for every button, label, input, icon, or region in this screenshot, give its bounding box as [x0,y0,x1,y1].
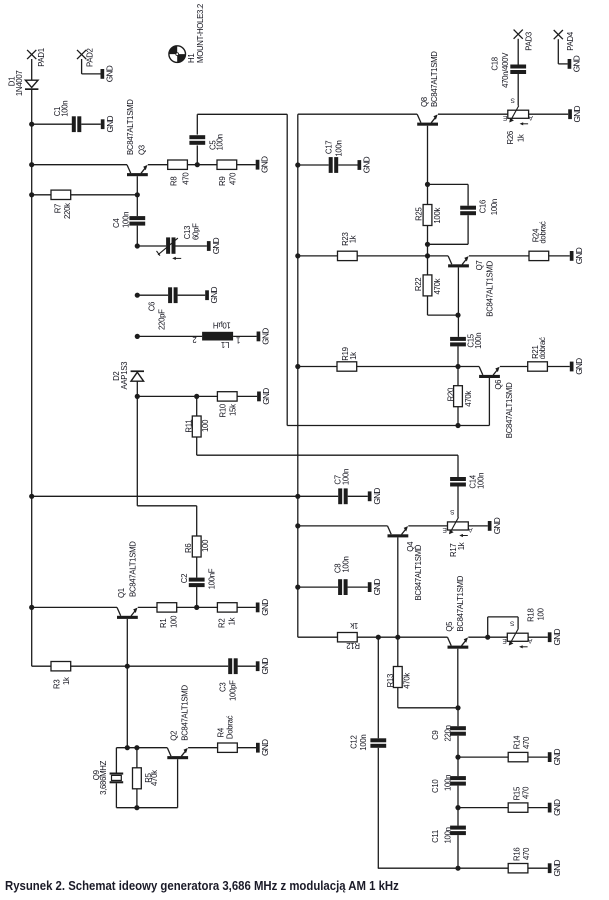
wire PAD4 to ground [558,63,567,65]
wire to R5 [136,748,138,768]
svg-text:Dobrać: Dobrać [226,715,235,739]
wire R24 to ground [549,255,570,257]
ground C7 [368,491,372,501]
svg-text:C3: C3 [219,683,228,692]
transistor Q1 [117,541,138,666]
svg-text:C4: C4 [112,218,121,228]
wire to R16 [458,867,508,869]
svg-text:R10: R10 [218,403,227,417]
wire PAD2 down [81,59,83,74]
wire C1 to ground [81,123,101,125]
resistor R4 [217,715,238,752]
ground R10 [257,392,261,402]
wire R7 to Q3 base [71,194,138,196]
svg-text:GND: GND [552,860,562,877]
junction [135,192,140,197]
junction [455,705,460,710]
junction [295,364,300,369]
resistor R20 [447,386,473,407]
wire R23 to Q7 [357,255,448,257]
svg-text:15k: 15k [229,404,238,416]
wire to Q4 collector [298,525,388,527]
wire C17 to ground [338,164,357,166]
svg-text:100n: 100n [334,140,343,156]
resistor R25 [415,205,442,226]
svg-text:470k: 470k [150,770,159,786]
wire R20 down [457,407,459,426]
capacitor C9 [431,725,466,741]
ground PAD2 [101,69,105,79]
junction [455,423,460,428]
wire to C8 [298,586,338,588]
svg-text:220pF: 220pF [158,309,167,330]
svg-text:R18: R18 [527,608,536,621]
capacitor C3 [219,658,238,701]
wire C3 to ground [238,665,256,667]
svg-text:Q7: Q7 [475,261,484,271]
trimmer capacitor C13 [157,223,201,260]
junction [135,334,140,339]
wire bus A to Q6 base [287,425,489,427]
wire R26 to ground [529,113,569,115]
wire R2 to ground [237,606,256,608]
svg-text:GND: GND [260,599,270,616]
svg-text:220k: 220k [63,203,72,219]
wire to Q3 collector [32,164,127,166]
svg-text:L1: L1 [221,340,229,349]
wire R5 down [136,789,138,808]
transistor Q4 [388,526,424,637]
resistor R8 [168,160,191,186]
svg-text:C17: C17 [325,141,334,154]
svg-text:1k: 1k [62,677,71,685]
wire to C13 [137,245,166,247]
junction [425,182,430,187]
svg-text:C10: C10 [431,779,440,793]
svg-text:PAD3: PAD3 [525,32,534,51]
potentiometer R26 [502,97,533,145]
wire Q2 emitter to R4 [188,747,218,749]
junction [295,585,300,590]
svg-text:Q1: Q1 [117,588,126,598]
wire Q8 emitter to R26 [438,113,508,115]
potentiometer R18 [502,607,546,648]
svg-text:BC847ALT1SMD: BC847ALT1SMD [126,99,135,155]
wire C9 to node [457,736,459,757]
wire to C16 top [428,183,469,185]
ground R17 [488,521,492,531]
svg-text:R14: R14 [512,735,521,749]
wire R18 wiper loop up [487,617,489,637]
svg-text:GND: GND [372,578,382,595]
wire Q1 emitter to R1 [138,606,157,608]
svg-text:H1: H1 [187,54,196,63]
wire to C10 [457,757,459,776]
wire R15 to ground [528,807,548,809]
junction [29,122,34,127]
wire L1 to ground [233,335,257,337]
svg-text:GND: GND [572,55,582,72]
resistor R15 [508,786,530,812]
ground R26 [568,109,572,119]
junction [194,605,199,610]
ground PAD4 [568,59,572,69]
svg-text:GND: GND [261,388,271,405]
svg-text:100nF: 100nF [207,568,216,589]
wire C7 to ground [348,495,368,497]
wire to R23 [298,255,338,257]
ground R2 [256,603,260,613]
svg-text:GND: GND [552,629,562,646]
wire PAD1 to D1 [31,59,33,80]
wire bus B to R12 [298,636,338,638]
svg-text:470: 470 [522,847,531,860]
svg-text:Q5: Q5 [445,621,454,632]
wire Q1 base to Q2 rail [126,666,128,748]
wire top rail to Q8 [298,113,417,115]
junction [455,755,460,760]
resistor R11 [184,416,210,437]
svg-text:470n/400V: 470n/400V [501,52,510,88]
wire R22 down [427,296,429,315]
resistor R3 [51,662,71,690]
wire R13 down [397,688,399,708]
junction [29,494,34,499]
wire right bus A [286,114,288,425]
junction [455,313,460,318]
svg-text:100n: 100n [476,473,485,489]
resistor R2 [217,603,237,628]
wire C11 to node [457,835,459,868]
svg-text:C6: C6 [148,302,157,311]
wire to R13 [397,637,399,666]
resistor R19 [337,347,358,371]
svg-text:R3: R3 [52,680,61,689]
ground R14 [548,752,552,762]
svg-text:Q6: Q6 [494,380,503,390]
wire R26 wiper to C18 [517,74,519,106]
svg-text:470: 470 [229,172,238,185]
svg-text:470k: 470k [464,391,473,407]
capacitor C14 [450,473,485,489]
wire C5 top [196,114,198,134]
capacitor C11 [431,826,466,844]
resistor R5 [133,768,159,789]
wire Q4 emitter to R17 [408,525,447,527]
resistor R6 [184,536,210,557]
svg-text:Q3: Q3 [138,145,147,155]
svg-text:Q8: Q8 [420,97,429,107]
wire to R14 [458,756,508,758]
wire C10 to node [457,786,459,808]
svg-text:470: 470 [522,786,531,799]
svg-text:R16: R16 [512,848,521,861]
svg-text:PAD2: PAD2 [86,48,95,67]
svg-text:1N4007: 1N4007 [15,71,24,97]
svg-text:100: 100 [201,419,210,432]
resistor R1 [157,603,178,628]
capacitor C2 [180,568,216,589]
wire left bus [31,90,33,666]
svg-text:R4: R4 [217,727,226,737]
wire R10 to ground [237,395,257,397]
resistor R13 [386,667,412,689]
wire C12 down [377,748,379,868]
inductor L1 [193,321,241,350]
wire C14 top [457,455,459,477]
wire right bus B [297,114,299,637]
svg-text:AAP1S3: AAP1S3 [120,362,129,390]
wire to crystal [115,748,117,773]
svg-text:BC847ALT1SMD: BC847ALT1SMD [129,541,138,597]
svg-text:R25: R25 [415,207,424,221]
capacitor C4 [112,212,145,228]
junction [125,664,130,669]
wire to C1 [32,123,72,125]
wire C15 to node [457,346,459,366]
wire to R19 [298,366,337,368]
wire C12 to ladder bottom [378,867,458,869]
wire R21 to ground [547,366,569,368]
svg-text:1k: 1k [349,352,358,360]
wire node to R20 [457,367,459,386]
svg-text:C16: C16 [479,200,488,213]
ground C8 [368,582,372,592]
svg-text:GND: GND [260,739,270,756]
junction [395,635,400,640]
wire to C17 [298,164,329,166]
wire R9 to ground [237,164,256,166]
wire corner to R6 [137,505,196,507]
svg-text:C18: C18 [491,57,500,70]
wire C13 to ground [176,245,207,247]
ground C17 [358,160,362,170]
wire crystal rail bottom [116,807,177,809]
transistor Q3 [126,99,148,195]
svg-text:100n: 100n [122,212,131,228]
junction [29,192,34,197]
svg-text:1k: 1k [517,134,526,142]
wire to C11 [457,808,459,826]
svg-text:R20: R20 [447,387,456,401]
svg-text:1k: 1k [228,617,237,625]
junction [29,162,34,167]
transistor Q2 [167,685,189,808]
junction [125,745,130,750]
wire crystal rail top [116,747,167,749]
svg-text:100: 100 [201,539,210,552]
wire R11 down [196,437,198,455]
wire to C4 [136,195,138,216]
svg-text:GND: GND [105,65,115,82]
capacitor C15 [450,333,483,349]
svg-text:100n: 100n [444,827,453,843]
capacitor C8 [334,556,351,595]
wire to R7 [32,194,51,196]
svg-text:GND: GND [372,488,382,505]
svg-text:GND: GND [209,287,219,304]
caption [5,878,399,893]
svg-text:R15: R15 [512,786,521,800]
wire C16 bottom [467,215,469,244]
wire R6 to C2 [196,557,198,578]
junction [425,253,430,258]
svg-text:470k: 470k [433,278,442,294]
ground R16 [548,863,552,873]
wire D2 to node [136,381,138,396]
wire R13 to Q5 base [398,707,458,709]
junction [194,394,199,399]
wire R11 to C14 [197,454,458,456]
resistor R21 [528,337,548,371]
resistor R10 [217,392,237,418]
wire PAD2 to ground [82,73,101,75]
capacitor C6 [148,287,178,330]
junction [195,162,200,167]
junction [455,866,460,871]
svg-text:3,686MHZ: 3,686MHZ [99,760,108,795]
svg-text:1k: 1k [350,621,358,630]
junction [295,253,300,258]
svg-text:GND: GND [492,517,502,534]
ground C3 [256,661,260,671]
junction [455,364,460,369]
svg-text:GND: GND [105,116,115,133]
wire C14 to R17 wiper [457,487,459,518]
capacitor C12 [350,735,386,751]
potentiometer R17 [442,508,473,557]
junction [134,805,139,810]
capacitor C17 [325,140,344,172]
pad PAD1 [27,50,36,59]
wire to L1 [137,335,202,337]
resistor R7 [51,190,72,219]
wire R18 wiper loop right [488,616,518,618]
svg-text:R9: R9 [218,177,227,186]
ground L1 [257,332,261,342]
ground R18 [548,632,552,642]
svg-text:R7: R7 [54,204,63,213]
resistor R9 [217,160,238,186]
svg-text:dobrać: dobrać [538,337,547,359]
ground R24 [570,251,574,261]
capacitor C16 [460,199,499,215]
diode D2 [112,362,144,390]
ground R4 [256,743,260,753]
svg-text:BC847ALT1SMD: BC847ALT1SMD [430,51,439,107]
svg-text:C2: C2 [180,574,189,583]
capacitor C10 [431,775,466,793]
wire C16 to R25 node [428,243,469,245]
ground R21 [570,362,574,372]
transistor Q7 [448,256,494,337]
svg-text:GND: GND [211,237,221,254]
wire R3 to C3 [71,665,229,667]
wire R18 wiper down [517,617,519,629]
wire Q7 emitter to R24 [469,255,529,257]
wire to C12 [377,637,379,738]
diode D1 [7,71,38,97]
wire R16 to ground [528,867,548,869]
wire to R25 [427,184,429,205]
transistor Q5 [445,575,468,707]
svg-text:BC847ALT1SMD: BC847ALT1SMD [414,544,423,600]
svg-text:470k: 470k [403,673,412,689]
wire R1 to R2 [177,606,218,608]
wire to C6 [137,294,168,296]
wire node to R11 [196,396,198,416]
junction [135,243,140,248]
svg-text:C9: C9 [431,731,440,740]
svg-text:470: 470 [522,736,531,749]
wire C6 to ground [178,294,206,296]
pad PAD2 [77,50,86,59]
wire left bus to C7 node [32,495,298,497]
svg-text:1k: 1k [457,542,466,550]
capacitor C7 [334,469,351,504]
wire C8 to ground [348,586,368,588]
svg-text:100n: 100n [61,101,70,117]
transistor Q6 [479,367,514,439]
junction [295,494,300,499]
svg-text:R6: R6 [184,544,193,553]
junction [135,293,140,298]
svg-text:R8: R8 [170,177,179,186]
wire to C7 [298,495,338,497]
junction [376,635,381,640]
wire C18 to PAD3 [517,39,519,65]
svg-text:100n: 100n [444,775,453,791]
wire R12 to Q5 [357,636,447,638]
junction [295,523,300,528]
junction [485,635,490,640]
resistor R14 [508,735,531,762]
wire Q6 emitter to R21 [500,366,528,368]
svg-text:220n: 220n [444,725,453,741]
svg-text:C11: C11 [431,830,440,843]
wire PAD4 down [557,39,559,64]
resistor R12 [338,621,361,650]
transistor Q8 [417,51,439,185]
svg-text:BC847ALT1SMD: BC847ALT1SMD [456,575,465,631]
junction [135,394,140,399]
ground C13 [207,241,211,251]
svg-text:GND: GND [572,106,582,123]
wire crystal down [115,783,117,807]
wire to R3 [32,665,51,667]
svg-text:100n: 100n [341,469,350,485]
capacitor C1 [53,101,81,132]
svg-text:1k: 1k [349,235,358,243]
svg-text:100n: 100n [490,199,499,215]
wire to R15 [458,807,508,809]
resistor R16 [508,847,531,873]
wire R17 to ground [468,525,488,527]
capacitor C18 [491,52,527,88]
wire C5 bottom [196,145,198,164]
svg-text:Q2: Q2 [170,731,179,741]
wire C16 down [467,184,469,205]
svg-text:R11: R11 [184,420,193,433]
svg-text:100pF: 100pF [229,680,238,701]
junction [29,605,34,610]
wire R19 to Q6 [357,366,479,368]
junction [134,745,139,750]
wire C5 to right bus A [197,113,287,115]
svg-text:GND: GND [552,748,562,765]
svg-text:R2: R2 [218,619,227,628]
ground C6 [205,290,209,300]
